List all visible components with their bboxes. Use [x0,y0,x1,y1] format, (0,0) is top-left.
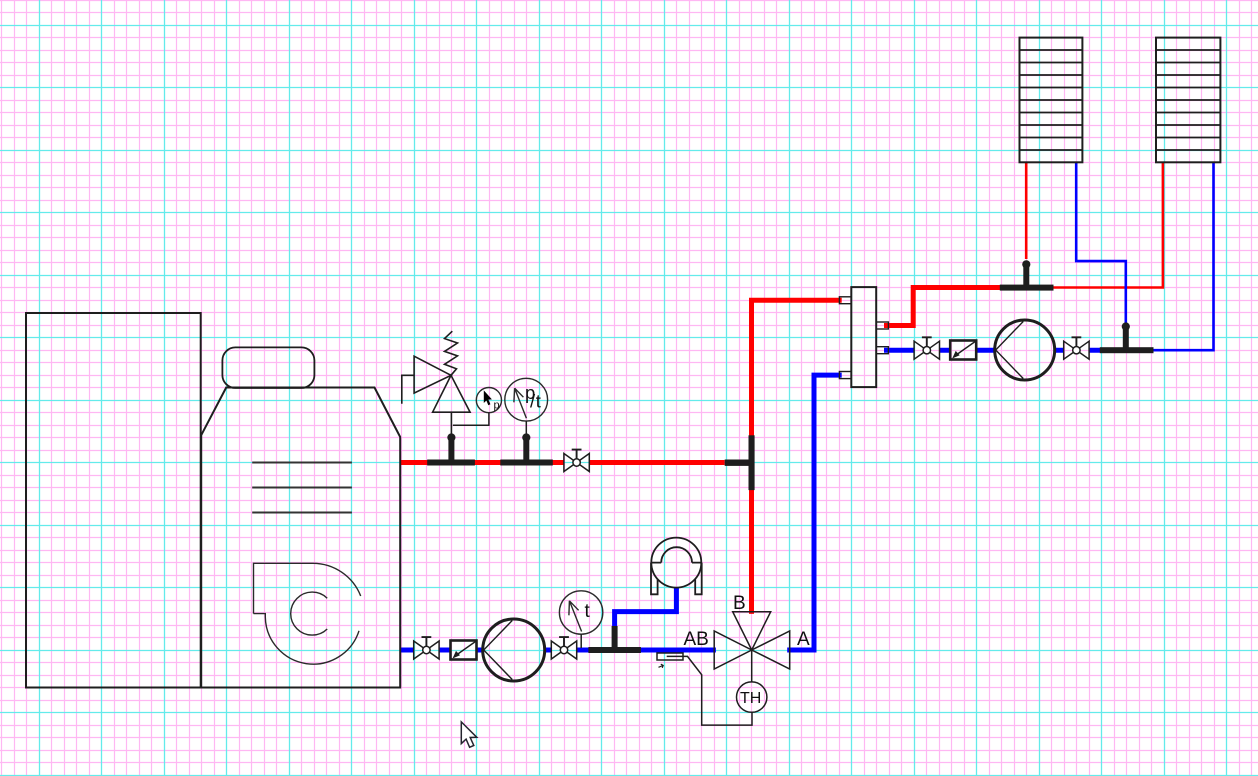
manifold [839,287,888,387]
svg-text:B: B [733,593,746,614]
supply red manifold to radiators [884,288,1054,326]
return pipe blue boiler line [400,648,716,653]
tee radiator1 return [1100,322,1154,353]
valve V1 supply [564,450,589,472]
valve V2 boiler return [414,637,439,659]
svg-text:AB: AB [684,629,709,650]
radiator R2 [1156,38,1220,163]
actuator [657,653,752,725]
tee radiator1 supply [1000,260,1054,290]
valve V3 boiler return [551,637,576,659]
thermostat TH [737,682,767,712]
tee supply-safety [427,433,475,465]
storage tank [26,313,201,688]
tee expansion vessel [588,626,641,653]
safety valve [402,331,470,437]
pump P1 [483,619,545,681]
supply pipe red riser to manifold [752,300,842,614]
svg-text:A: A [797,629,810,650]
svg-text:TH: TH [740,690,761,707]
valve V4 return [914,337,939,359]
tee supply-gauge [500,433,553,465]
expansion vessel [651,538,702,595]
valve V5 return [1064,337,1089,359]
radiator1 blue riser [1075,162,1127,324]
svg-text:p: p [494,400,500,412]
three-way valve [714,612,790,682]
check valve CV2 [950,341,976,360]
radiator R1 [1020,38,1083,163]
svg-text:t: t [585,601,591,622]
pump P2 [995,320,1055,380]
radiator2 blue riser [1154,162,1215,351]
mouse cursor [461,722,477,747]
check valve CV1 [451,641,477,660]
expansion vessel blue pipe [615,587,679,627]
burner [222,347,314,388]
return pipe blue manifold line [884,348,1154,353]
boiler body [201,388,400,688]
radiator1 red riser [1025,162,1028,259]
gauge p/t [505,378,548,437]
supply pipe red boiler line [400,460,725,465]
fan volute [254,563,361,664]
pipe blue A port elbow [787,375,842,652]
thermometer t [559,591,602,648]
pressure gauge p [453,388,502,426]
svg-text:t: t [536,391,541,412]
heat exchanger lines [252,463,352,513]
tee supply riser [725,435,755,490]
